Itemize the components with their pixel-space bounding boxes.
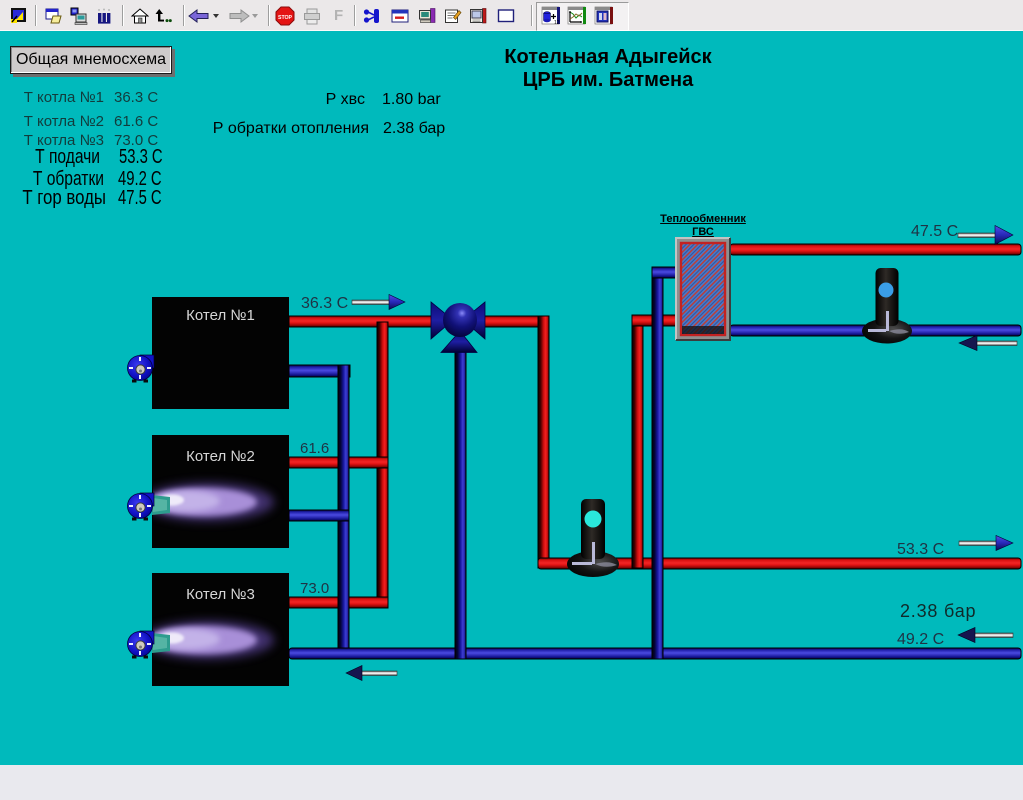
wire blue boiler2 return stub — [289, 510, 349, 521]
toolbar icon: edit note — [444, 7, 462, 25]
title — [438, 46, 778, 92]
wire blue valve stem drop — [455, 340, 466, 659]
wire blue return riser boilers — [338, 365, 349, 659]
arrow flow right at 36.3C — [352, 295, 405, 310]
arrow flow right at 53.3C — [959, 536, 1013, 551]
toolbar icon: print disabled — [303, 7, 321, 25]
wire red hot water outlet 47.5C — [730, 244, 1021, 255]
heat exchanger label — [633, 213, 773, 239]
wire red riser to heat exchanger — [632, 315, 643, 568]
toolbar icon: home — [131, 7, 149, 25]
toolbar icon: log book — [469, 7, 487, 25]
toolbar icon: exit/system — [10, 7, 28, 25]
toolbar icon: blank window — [497, 7, 515, 25]
burner nozzle boiler3 — [152, 633, 170, 653]
flame boiler3 — [142, 621, 274, 659]
temperature list labels — [0, 89, 104, 106]
boiler 2 body — [152, 435, 289, 548]
toolbar icon: trends chart — [567, 5, 588, 26]
wire red heat exchanger feed stub — [632, 315, 676, 326]
pump hot water loop (on red header) — [567, 499, 619, 577]
arrow flow right at 47.5C — [958, 226, 1013, 245]
toolbar icon: back arrow — [188, 7, 210, 25]
wire red bottom supply header 53.3C — [538, 558, 1021, 569]
pump P2 boiler2 circulation — [128, 493, 155, 521]
toolbar icon: alarms book — [594, 5, 615, 26]
toolbar — [0, 0, 1023, 31]
pump heat exchanger loop (on blue outlet) — [862, 268, 912, 344]
wire blue bottom return header 49.2C — [289, 648, 1021, 659]
pressure labels — [165, 91, 365, 109]
pipe value labels — [301, 295, 348, 313]
arrow flow left at 49.2C — [958, 628, 1013, 643]
toolbar icon: open window — [45, 7, 63, 25]
wire red branch boiler3 — [289, 597, 388, 608]
wire red branch boiler2 — [289, 457, 388, 468]
toolbar icon: up level — [154, 7, 172, 25]
toolbar icon: workstation book — [418, 7, 436, 25]
toolbar group: reports — [536, 2, 629, 31]
toolbar icon: network computer — [70, 7, 88, 25]
flame boiler2 — [142, 483, 274, 521]
arrow flow left near boiler3 return — [346, 666, 397, 681]
heat exchanger GVS — [676, 238, 730, 340]
wire red supply main from boiler1 to valve corner — [289, 316, 549, 327]
arrow flow left at heat exchanger return — [959, 336, 1017, 351]
toolbar icon: columns Ш — [95, 7, 113, 25]
toolbar icon: forward arrow disabled — [228, 7, 250, 25]
wire blue heat exchanger left riser — [652, 267, 663, 659]
toolbar icon: dialog with red line — [391, 7, 409, 25]
toolbar icon: stop — [275, 6, 295, 26]
pump P1 boiler1 circulation — [128, 355, 155, 383]
wire blue boiler1 return stub — [289, 365, 350, 377]
valve three-way mixing — [431, 302, 485, 353]
wire blue heat exchanger left stub — [652, 267, 676, 278]
pump P3 boiler3 circulation — [128, 631, 155, 659]
wire red riser from supply main down to boiler3 branch — [377, 322, 388, 608]
wire blue heat exchanger outlet — [730, 325, 1021, 336]
boiler name labels — [152, 307, 289, 324]
button Общая мнемосхема — [10, 46, 172, 74]
boiler 3 body — [152, 573, 289, 686]
bottom status strip — [0, 765, 1023, 800]
wire red drop after valve — [538, 316, 549, 568]
boiler 1 body — [152, 297, 289, 409]
toolbar icon: database values — [541, 5, 562, 26]
burner nozzle boiler2 — [152, 495, 170, 515]
toolbar icon: connections — [363, 7, 381, 25]
toolbar icon: F disabled — [334, 7, 343, 24]
